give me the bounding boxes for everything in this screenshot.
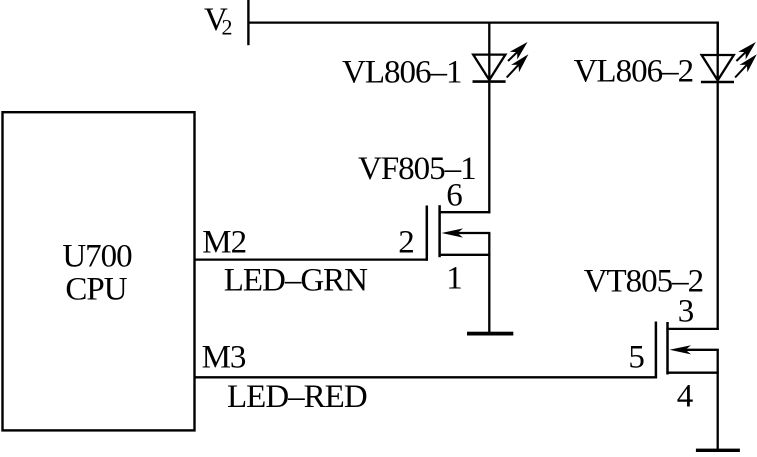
drain stub pin 6 (439, 211, 491, 213)
diode triangle (702, 55, 734, 80)
svg-text:U700: U700 (62, 238, 132, 274)
light emission arrows (510, 42, 528, 60)
svg-text:6: 6 (446, 178, 463, 214)
transistor VT805-2 (584, 264, 719, 449)
wire VL806-2 cathode to VT805-2 drain (717, 22, 719, 330)
wire VL806-1 cathode to VF805-1 drain (488, 82, 490, 214)
svg-text:2: 2 (398, 224, 415, 260)
cathode bar (473, 80, 506, 83)
drain stub pin 3 (666, 328, 718, 330)
wire source to ground (488, 233, 490, 332)
wire V2 supply rail (248, 23, 717, 56)
svg-text:3: 3 (678, 294, 695, 330)
wire M2 from CPU to VF805-1 gate (196, 224, 429, 260)
svg-text:2: 2 (222, 15, 233, 40)
source stub pin 4 (666, 372, 718, 374)
cathode bar (701, 81, 734, 84)
transistor VF805-1 (358, 151, 490, 332)
LED VL806-2 (574, 42, 757, 89)
svg-text:5: 5 (628, 340, 645, 376)
wire source to ground (717, 350, 719, 449)
svg-text:4: 4 (677, 378, 694, 414)
IC U700 CPU (3, 112, 195, 430)
gate bar (655, 322, 658, 379)
wire VL806-1 anode (488, 22, 490, 81)
svg-text:1: 1 (446, 260, 463, 296)
LED VL806-1 (342, 42, 528, 91)
ground for VF805-1 source (467, 332, 513, 336)
net label LED-GRN (224, 262, 368, 298)
gate bar (426, 206, 429, 261)
svg-text:M2: M2 (202, 224, 246, 260)
channel bar (438, 205, 441, 257)
svg-text:VL806–2: VL806–2 (574, 53, 694, 89)
light emission arrows (738, 42, 756, 60)
svg-text:LED–RED: LED–RED (227, 379, 367, 415)
svg-text:M3: M3 (202, 340, 246, 376)
svg-text:LED–GRN: LED–GRN (224, 262, 368, 298)
ground for VT805-2 source (696, 449, 740, 453)
body stub with arrow (452, 232, 490, 234)
wire M3 from CPU to VT805-2 gate (196, 340, 658, 378)
channel bar (666, 322, 669, 375)
body stub with arrow (680, 349, 719, 351)
diode triangle (473, 55, 505, 80)
net label LED-RED (227, 379, 367, 415)
svg-text:VL806–1: VL806–1 (342, 55, 462, 91)
svg-text:CPU: CPU (65, 271, 127, 307)
power terminal V2 (204, 0, 248, 45)
source stub pin 1 (439, 254, 491, 256)
